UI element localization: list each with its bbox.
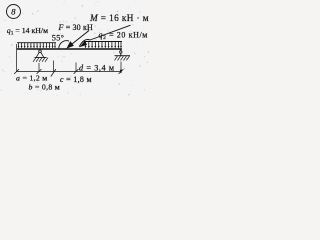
support hatching [115, 56, 130, 61]
svg-text:55°: 55° [52, 33, 65, 42]
moment leader line [90, 25, 131, 40]
distributed load q2 arrows [85, 42, 122, 49]
force F vector [66, 31, 89, 49]
distributed load q1 top line [17, 42, 56, 44]
svg-text:q2 = 20 кН/м: q2 = 20 кН/м [99, 31, 148, 42]
distributed load q1 arrows [18, 43, 56, 48]
moment arc arrow [79, 39, 90, 46]
task number circle 8 [7, 5, 21, 19]
pin support (left) [33, 50, 48, 62]
svg-text:a = 1,2 м: a = 1,2 м [16, 74, 48, 83]
svg-text:M = 16 кН · м: M = 16 кН · м [89, 13, 149, 23]
distributed load q2 top line [84, 41, 122, 43]
dimension tick arrows [14, 69, 123, 76]
rod support (right) [115, 49, 131, 60]
svg-text:8: 8 [11, 7, 16, 17]
dimension line [17, 71, 121, 73]
svg-text:q1 = 14 кН/м: q1 = 14 кН/м [7, 26, 48, 37]
angle arc 55 [59, 41, 69, 49]
svg-text:b = 0,8 м: b = 0,8 м [29, 82, 61, 91]
svg-text:d = 3,4 м: d = 3,4 м [79, 64, 115, 73]
svg-text:F = 30 кН: F = 30 кН [58, 23, 93, 32]
support hatching [33, 58, 48, 62]
svg-text:c = 1,8 м: c = 1,8 м [60, 75, 92, 84]
beam [17, 48, 123, 50]
extension lines [17, 44, 121, 73]
down arrow at right end [120, 70, 122, 74]
paper scan noise [1, 1, 149, 96]
